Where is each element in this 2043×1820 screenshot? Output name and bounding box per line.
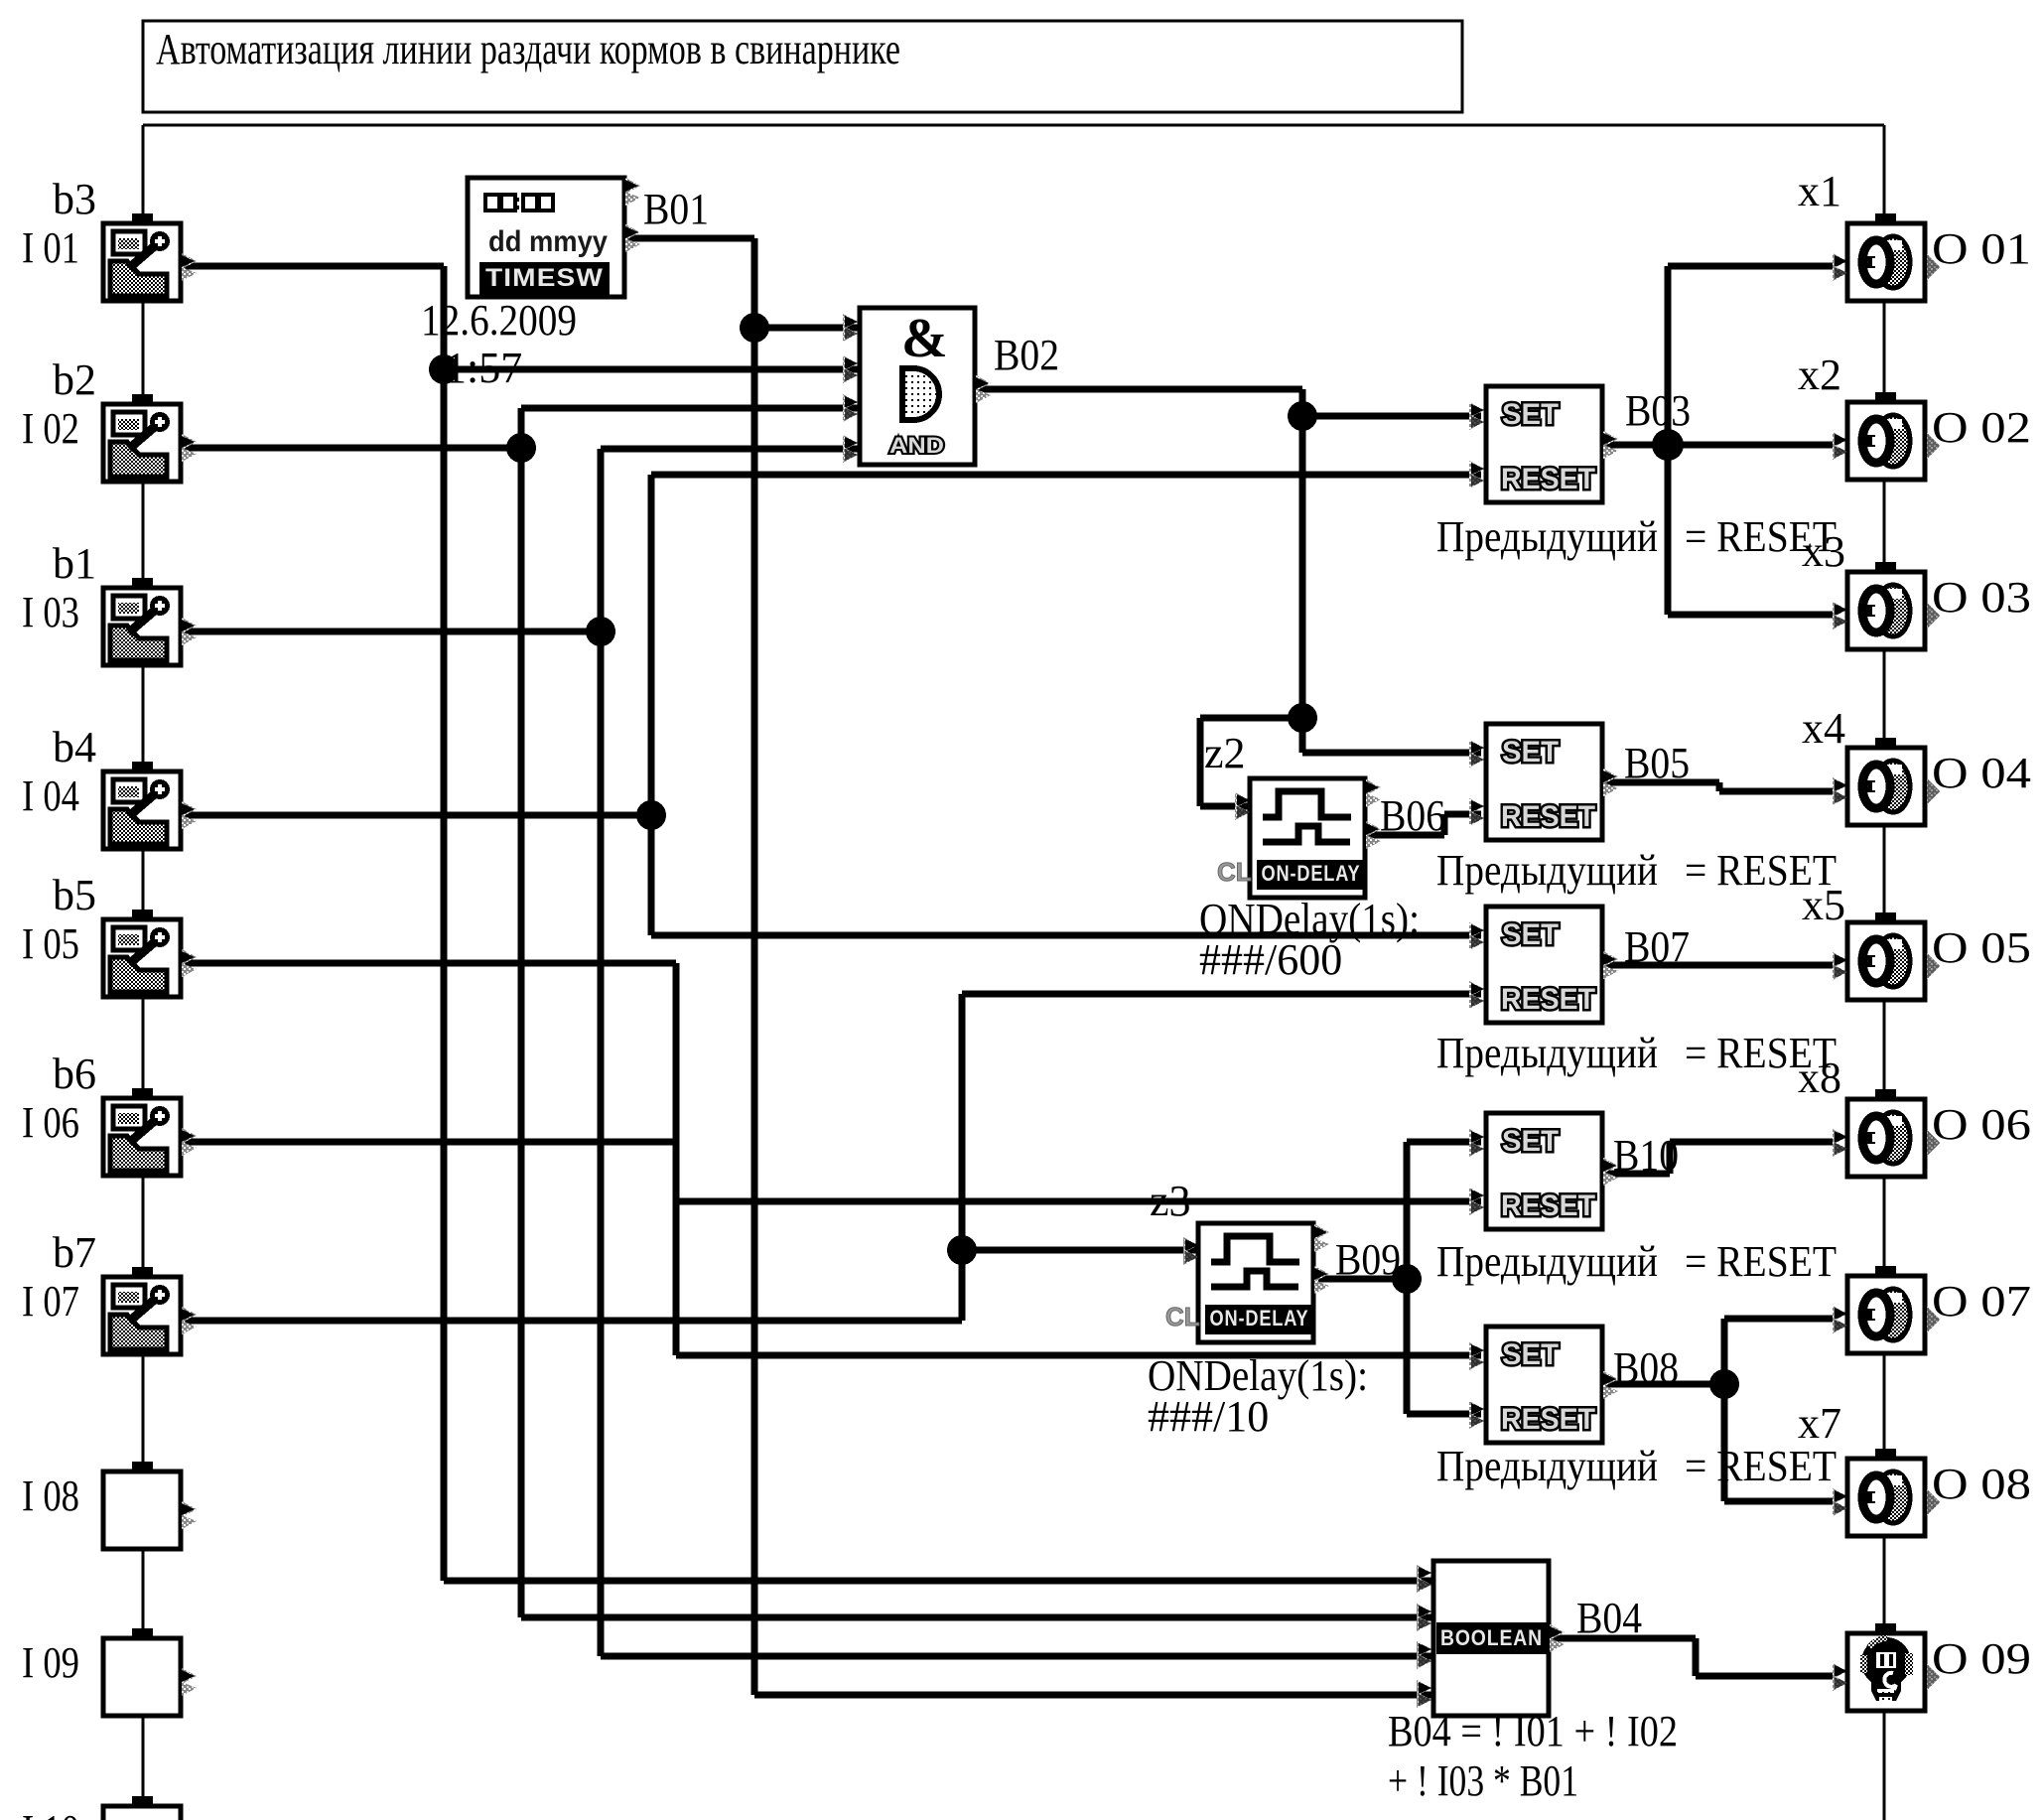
svg-text:x2: x2 <box>1798 350 1841 399</box>
svg-text:O 01: O 01 <box>1932 224 2031 273</box>
wire net B04: BOOLEAN output to O09 <box>1549 1635 1696 1642</box>
wire net B05: B05 output to O04 <box>1602 779 1719 786</box>
svg-text:Предыдущий: Предыдущий <box>1436 846 1658 895</box>
svg-text:x3: x3 <box>1802 527 1845 576</box>
input block I 10 <box>103 1796 197 1820</box>
svg-text:I 04: I 04 <box>22 771 79 820</box>
wire net I07: I07 output to B09 input and B07 RESET <box>183 1318 962 1325</box>
svg-text:CL: CL <box>1165 1302 1200 1331</box>
output block O 03 <box>1833 562 1940 649</box>
input block I 03 <box>103 578 197 665</box>
wire net z3: I05 and I06 outputs to B10 RESET and B08 SET <box>183 960 676 967</box>
output block O 06 <box>1833 1089 1940 1177</box>
input block I 01 <box>103 213 197 301</box>
svg-text:AND: AND <box>889 433 944 458</box>
svg-text:b6: b6 <box>53 1050 96 1098</box>
svg-text:RESET: RESET <box>1501 800 1595 833</box>
svg-text:x7: x7 <box>1798 1399 1841 1448</box>
wire net I04: I04 output to B03 RESET and B07 SET <box>183 812 651 819</box>
svg-text:TIMESW: TIMESW <box>485 264 604 292</box>
timer switch block B01 TIMESW <box>468 178 640 297</box>
svg-text:I 01: I 01 <box>22 223 79 272</box>
junction net B02 at z2 branch <box>1288 703 1317 733</box>
input block I 07 <box>103 1267 197 1354</box>
svg-text:CL: CL <box>1217 857 1252 887</box>
wire net B02: AND output to B03 SET, z2 to B06 input, B05 SET <box>975 386 1302 393</box>
svg-text:I 10: I 10 <box>22 1806 79 1820</box>
junction net B09 <box>1392 1264 1422 1294</box>
output block O 04 <box>1833 738 1940 825</box>
svg-text:B03: B03 <box>1625 386 1691 435</box>
svg-text:x4: x4 <box>1802 704 1845 753</box>
svg-text:SET: SET <box>1502 398 1559 431</box>
svg-text:O 02: O 02 <box>1932 403 2031 452</box>
svg-text:&: & <box>901 308 948 369</box>
RS latch block B07 <box>1469 907 1618 1023</box>
svg-text:= RESET: = RESET <box>1685 1237 1837 1286</box>
svg-text:###/10: ###/10 <box>1148 1392 1269 1441</box>
wire net B09: ON-DELAY B09 output to B10 SET and B08 RESET <box>1318 1276 1407 1283</box>
svg-text:O 05: O 05 <box>1932 923 2031 972</box>
svg-text:b7: b7 <box>53 1228 96 1277</box>
svg-text:SET: SET <box>1502 1338 1559 1371</box>
svg-text:RESET: RESET <box>1501 983 1595 1016</box>
svg-text:b2: b2 <box>53 355 96 404</box>
wire net I03: I03 output to AND in4 and BOOLEAN in3 <box>183 629 601 635</box>
wire net I02: I02 output to AND in3 and BOOLEAN in2 <box>183 445 521 452</box>
wire net B10: B10 output to O06 <box>1602 1171 1670 1178</box>
input block I 05 <box>103 910 197 997</box>
svg-text:BOOLEAN: BOOLEAN <box>1440 1625 1543 1650</box>
wire net B08: B08 output to O07 and O08 <box>1602 1381 1724 1388</box>
output block O 05 <box>1833 912 1940 1000</box>
output block O 09 <box>1833 1623 1940 1711</box>
svg-text:ON-DELAY: ON-DELAY <box>1262 861 1361 886</box>
input block I 09 <box>103 1628 197 1716</box>
svg-text:x5: x5 <box>1802 881 1845 929</box>
input block I 02 <box>103 394 197 482</box>
input block I 06 <box>103 1088 197 1176</box>
RS latch block B03 <box>1469 386 1618 502</box>
input block I 04 <box>103 762 197 849</box>
svg-text:Предыдущий: Предыдущий <box>1436 1442 1658 1490</box>
svg-text:+ ! I03 * B01: + ! I03 * B01 <box>1388 1756 1578 1805</box>
junction net B02 at B03 SET branch <box>1288 401 1317 431</box>
junction net I07 <box>947 1235 977 1265</box>
svg-text:= RESET: = RESET <box>1685 1442 1837 1490</box>
input block I 08 <box>103 1462 197 1549</box>
svg-text:O 07: O 07 <box>1932 1277 2031 1326</box>
svg-text:I 05: I 05 <box>22 919 79 968</box>
svg-text:dd mmyy: dd mmyy <box>488 225 608 258</box>
svg-text:SET: SET <box>1502 736 1559 769</box>
svg-text:B02: B02 <box>994 331 1059 379</box>
left input rail <box>142 125 145 1820</box>
svg-text:O 09: O 09 <box>1932 1634 2031 1683</box>
ON-DELAY timer block B06 <box>1217 778 1381 898</box>
svg-text:I 08: I 08 <box>22 1471 79 1520</box>
wire net I01: I01 output to AND in2 and BOOLEAN in1 <box>183 263 444 270</box>
RS latch block B08 <box>1469 1327 1618 1443</box>
svg-text:B01: B01 <box>643 185 709 233</box>
ON-DELAY timer block B09 <box>1165 1223 1329 1342</box>
svg-text:Предыдущий: Предыдущий <box>1436 512 1658 561</box>
wire net B07: B07 output to O05 <box>1602 962 1835 969</box>
right output rail <box>1883 125 1886 1820</box>
AND gate block B02 <box>843 308 991 465</box>
output block O 01 <box>1833 213 1940 301</box>
title box <box>143 21 1462 112</box>
junction net I01 <box>429 354 459 384</box>
junction net I04 <box>636 800 666 830</box>
svg-text:b3: b3 <box>53 175 96 223</box>
junction net I02 <box>506 433 536 463</box>
frame top border <box>143 124 1884 127</box>
svg-text:RESET: RESET <box>1501 1403 1595 1436</box>
wire net B01: TIMESW output to AND in1 and BOOLEAN in4 <box>624 235 754 242</box>
svg-text:z2: z2 <box>1204 729 1246 777</box>
junction net B03 <box>1652 429 1684 461</box>
svg-text:Автоматизация линии раздачи ко: Автоматизация линии раздачи кормов в сви… <box>156 25 900 73</box>
svg-text:I 07: I 07 <box>22 1277 79 1326</box>
junction net B01 <box>740 313 769 343</box>
input key-switch icon definition <box>0 0 1 1</box>
svg-text:I 06: I 06 <box>22 1098 79 1147</box>
svg-text:SET: SET <box>1502 918 1559 951</box>
svg-text:I 03: I 03 <box>22 588 79 636</box>
svg-text:I 09: I 09 <box>22 1638 79 1687</box>
svg-text:O 04: O 04 <box>1932 749 2031 797</box>
svg-text:ON-DELAY: ON-DELAY <box>1210 1306 1309 1330</box>
svg-text:x1: x1 <box>1798 167 1841 215</box>
svg-text:O 08: O 08 <box>1932 1460 2031 1508</box>
wire net B03: B03 output to O01 O02 O03 <box>1602 442 1668 449</box>
svg-text:SET: SET <box>1502 1125 1559 1158</box>
RS latch block B05 <box>1469 724 1618 840</box>
svg-text:RESET: RESET <box>1501 463 1595 495</box>
RS latch block B10 <box>1469 1113 1618 1229</box>
output block O 02 <box>1833 392 1940 480</box>
svg-text:b4: b4 <box>53 723 96 771</box>
svg-text:Предыдущий: Предыдущий <box>1436 1029 1658 1077</box>
junction net B08 <box>1709 1369 1739 1399</box>
wire net B06: ON-DELAY B06 output to B05 RESET <box>1365 832 1444 839</box>
output block O 08 <box>1833 1449 1940 1536</box>
BOOLEAN function block B04 <box>1417 1561 1565 1716</box>
svg-text:RESET: RESET <box>1501 1190 1595 1222</box>
output block O 07 <box>1833 1266 1940 1353</box>
svg-text:O 03: O 03 <box>1932 573 2031 622</box>
svg-text:b5: b5 <box>53 871 96 919</box>
svg-text:b1: b1 <box>53 539 96 588</box>
svg-text:I 02: I 02 <box>22 404 79 453</box>
svg-text:###/600: ###/600 <box>1199 935 1342 984</box>
svg-text:Предыдущий: Предыдущий <box>1436 1237 1658 1286</box>
junction net I03 <box>586 617 615 646</box>
svg-text:O 06: O 06 <box>1932 1100 2031 1149</box>
svg-text:x8: x8 <box>1798 1053 1841 1102</box>
